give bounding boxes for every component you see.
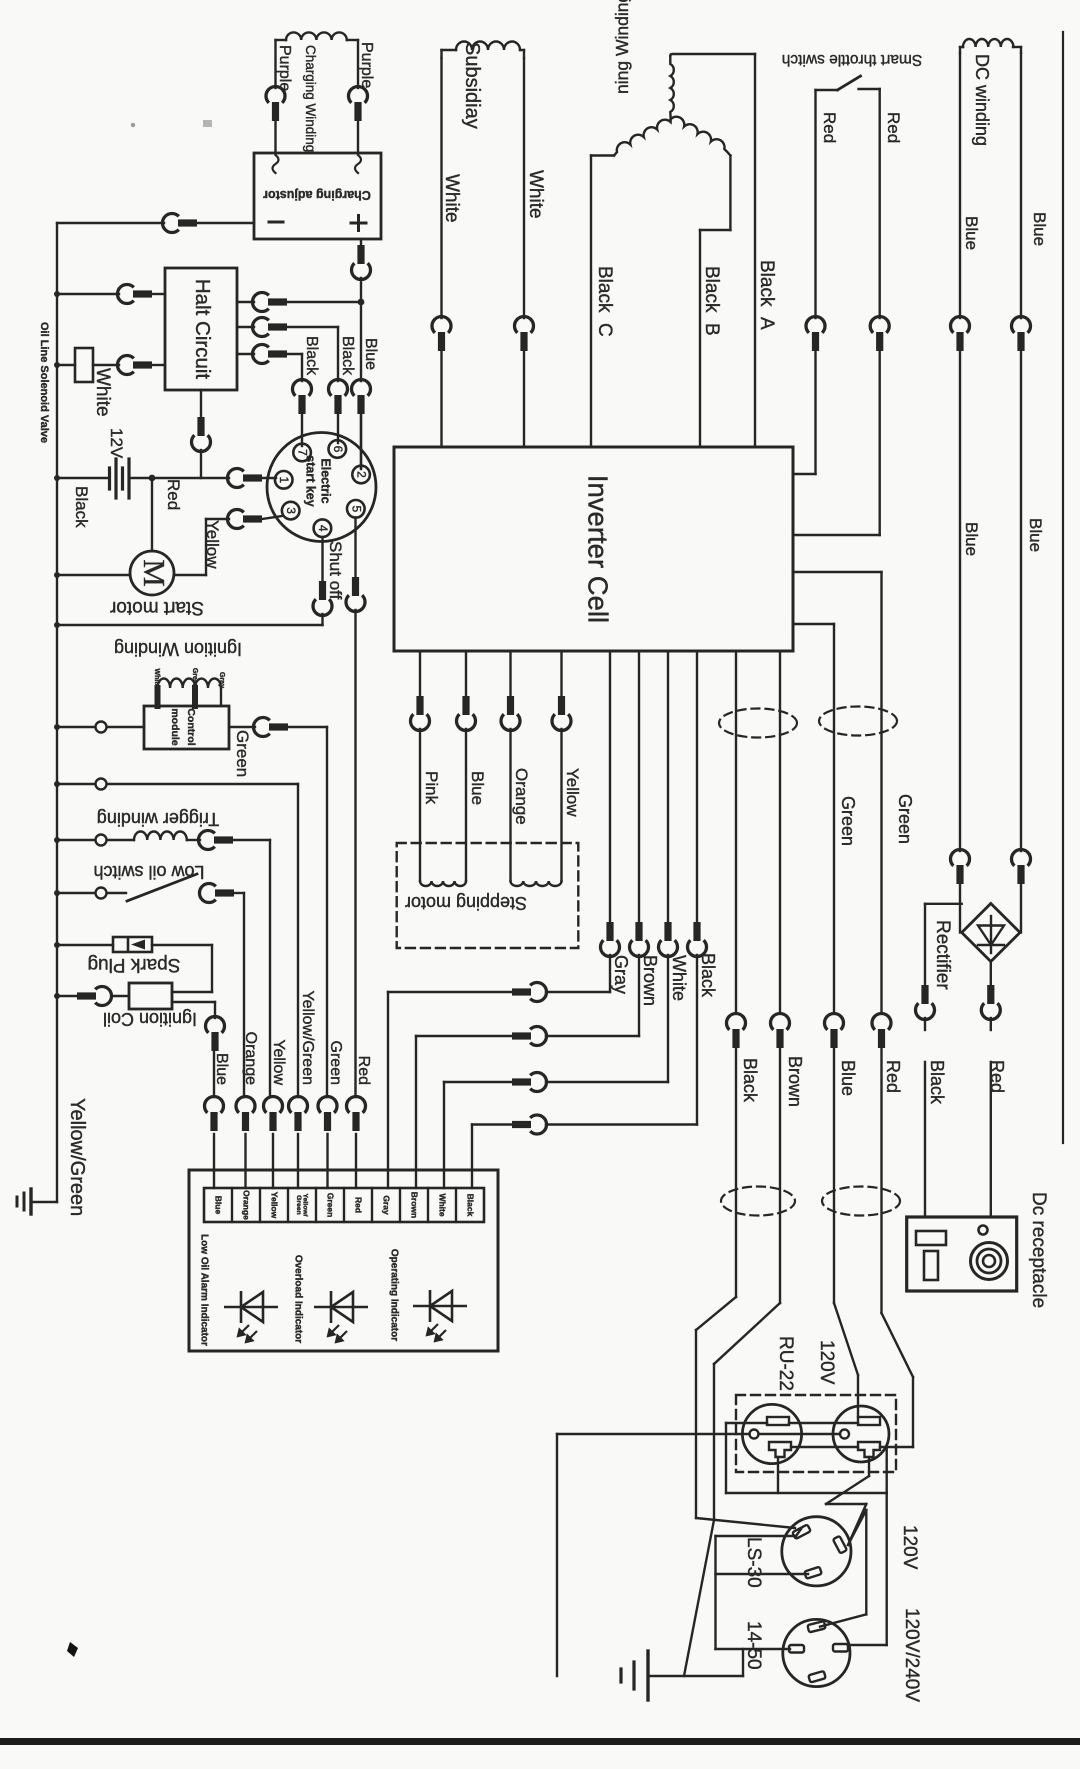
svg-text:Green: Green [838,796,858,846]
svg-text:Blue: Blue [468,771,487,805]
svg-text:Black A: Black A [756,260,777,330]
svg-text:Oil Line Solenoid Valve: Oil Line Solenoid Valve [38,322,50,443]
svg-text:Black: Black [740,1058,760,1103]
svg-text:5: 5 [349,505,363,512]
svg-text:6: 6 [331,446,345,453]
svg-text:Green: Green [327,1041,344,1085]
svg-text:Yellow: Yellow [563,768,582,817]
svg-text:Red: Red [354,1197,364,1213]
svg-text:Red: Red [883,1060,903,1093]
svg-text:Ignition Winding: Ignition Winding [114,639,242,659]
svg-text:Shut off: Shut off [326,541,345,600]
svg-text:Gray: Gray [382,1195,392,1215]
svg-text:14-50: 14-50 [743,1621,764,1670]
svg-text:Purple: Purple [358,42,375,88]
svg-text:Green: Green [233,730,252,777]
svg-text:Yellow: Yellow [270,1192,280,1219]
svg-text:Black: Black [698,953,718,998]
svg-text:Yellow: Yellow [203,520,222,569]
svg-text:Red: Red [355,1056,372,1085]
svg-text:Red: Red [164,479,183,510]
svg-text:Low oil switch: Low oil switch [93,862,204,882]
svg-text:120V: 120V [816,1340,837,1385]
svg-text:12V: 12V [107,428,126,459]
svg-text:Purple: Purple [276,45,293,91]
svg-text:module: module [169,708,181,745]
svg-text:Yellow/Green: Yellow/Green [66,1098,88,1216]
svg-text:LS-30: LS-30 [743,1537,764,1588]
svg-text:White: White [669,955,689,1001]
svg-text:Charging Winding: Charging Winding [303,45,318,152]
svg-text:Blue: Blue [838,1060,858,1096]
svg-text:3: 3 [284,507,298,514]
svg-text:Orange: Orange [242,1190,252,1220]
svg-text:4: 4 [316,525,330,532]
svg-text:Trigger winding: Trigger winding [97,809,219,829]
svg-text:Operating Indicator: Operating Indicator [389,1249,400,1341]
svg-text:1: 1 [277,476,291,483]
svg-text:7: 7 [296,449,310,456]
svg-text:Blue: Blue [214,1196,224,1215]
svg-text:RU-22: RU-22 [775,1336,796,1391]
svg-text:Gray: Gray [611,955,631,994]
svg-text:Brown: Brown [785,1056,805,1107]
svg-text:Black: Black [303,336,320,376]
svg-text:Stepping motor: Stepping motor [405,893,527,913]
svg-text:White: White [438,1193,448,1216]
svg-text:White: White [525,170,546,219]
svg-text:Green: Green [191,668,198,688]
svg-text:Black B: Black B [701,266,722,336]
svg-text:Rectifier: Rectifier [932,920,953,990]
svg-text:Green: Green [326,1193,336,1218]
svg-text:Blue: Blue [362,338,379,370]
svg-text:Blue: Blue [213,1053,230,1085]
svg-text:Blue: Blue [962,522,981,556]
svg-text:Red: Red [884,112,903,143]
svg-text:Black: Black [927,1060,947,1105]
svg-text:Black: Black [72,486,91,528]
svg-text:ning Winding: ning Winding [612,0,632,94]
svg-text:Gray: Gray [218,672,225,688]
svg-text:Yellow/Green: Yellow/Green [299,990,316,1085]
svg-text:Halt Circuit: Halt Circuit [191,279,214,380]
svg-text:Overload Indicator: Overload Indicator [293,1255,304,1343]
svg-text:Brown: Brown [410,1192,420,1218]
svg-text:Blue: Blue [962,216,981,250]
svg-text:Pink: Pink [422,771,441,805]
svg-text:Red: Red [820,112,839,143]
svg-text:Orange: Orange [242,1032,259,1085]
svg-text:White: White [441,174,462,223]
svg-text:White: White [92,368,113,417]
svg-text:Subsidiay: Subsidiay [461,42,483,129]
svg-text:120V/240V: 120V/240V [901,1608,922,1702]
svg-text:Green: Green [895,794,915,844]
svg-text:Red: Red [987,1060,1007,1093]
svg-text:DC winding: DC winding [972,54,992,146]
svg-text:Smart throttle switch: Smart throttle switch [782,51,922,68]
svg-text:M: M [137,559,172,587]
svg-text:Charging adjustor: Charging adjustor [263,188,371,202]
svg-text:Black: Black [466,1194,476,1217]
svg-text:Black C: Black C [594,266,615,337]
svg-text:Electric: Electric [319,458,333,503]
svg-text:start key: start key [304,455,318,506]
svg-text:Inverter Cell: Inverter Cell [583,475,614,623]
svg-text:Spark Plug: Spark Plug [88,954,181,975]
svg-text:Orange: Orange [512,768,531,825]
svg-text:Black: Black [339,336,356,376]
svg-text:Start motor: Start motor [109,597,204,618]
svg-text:White: White [153,668,160,687]
svg-text:Blue: Blue [1030,212,1049,246]
svg-text:Brown: Brown [640,955,660,1006]
svg-text:Green: Green [295,1195,302,1215]
svg-text:Blue: Blue [1026,518,1045,552]
svg-text:120V: 120V [899,1525,920,1570]
svg-text:Low Oil Alarm Indicator: Low Oil Alarm Indicator [199,1234,210,1346]
svg-text:Control: Control [185,708,197,745]
svg-text:Dc receptacle: Dc receptacle [1028,1192,1049,1308]
svg-text:Ignition Coil: Ignition Coil [103,1009,197,1029]
svg-text:Yellow: Yellow [270,1039,287,1085]
svg-text:2: 2 [355,471,369,478]
